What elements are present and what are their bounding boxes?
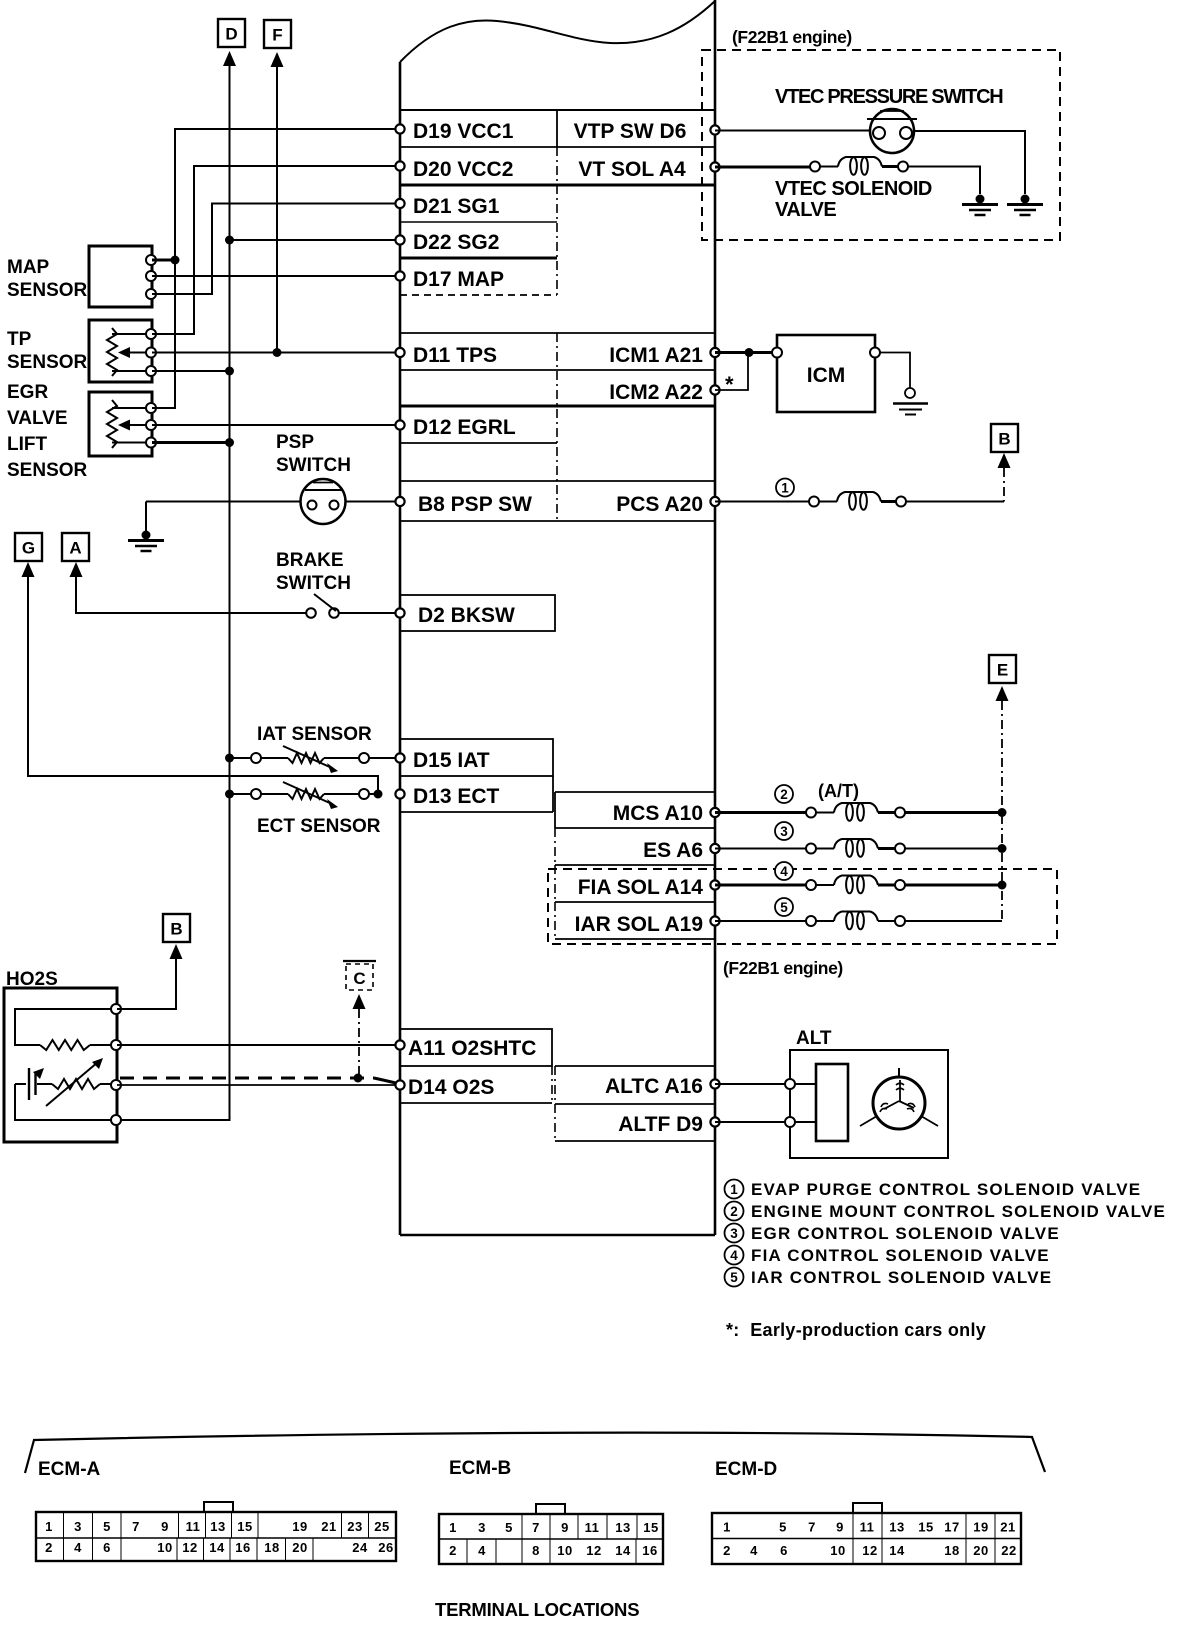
svg-text:23: 23	[347, 1519, 362, 1534]
legend item 2	[725, 1202, 1167, 1222]
connector box C with overbar	[343, 961, 376, 990]
svg-text:2: 2	[780, 787, 788, 802]
svg-text:TERMINAL LOCATIONS: TERMINAL LOCATIONS	[435, 1599, 639, 1620]
svg-text:D19 VCC1: D19 VCC1	[413, 120, 514, 143]
svg-text:EGR: EGR	[7, 382, 48, 403]
svg-text:25: 25	[374, 1519, 389, 1534]
svg-text:22: 22	[1001, 1543, 1016, 1558]
connector box B (right)	[991, 424, 1018, 452]
wire IAR SOL A19 with IAR control solenoid coil	[715, 912, 1002, 930]
wire VT SOL A4	[715, 166, 812, 169]
svg-text:11: 11	[186, 1519, 201, 1534]
svg-text:18: 18	[264, 1540, 279, 1555]
EGR valve lift sensor label	[7, 382, 88, 481]
wire D22 SG2 to sensor-ground bus	[230, 239, 401, 241]
ECM pin box D2 BKSW	[400, 595, 555, 631]
legend item 5	[725, 1268, 1053, 1288]
wire A11 O2SHTC	[117, 1044, 400, 1046]
svg-text:A11 O2SHTC: A11 O2SHTC	[408, 1037, 536, 1060]
svg-text:VALVE: VALVE	[775, 199, 836, 221]
ECM pin box D17 MAP	[400, 268, 557, 295]
svg-text:FIA CONTROL SOLENOID VALVE: FIA CONTROL SOLENOID VALVE	[751, 1246, 1050, 1265]
ECM body outline (torn-top rectangle)	[400, 0, 715, 1235]
svg-text:D14 O2S: D14 O2S	[408, 1076, 494, 1099]
svg-text:14: 14	[615, 1543, 631, 1558]
svg-text:1: 1	[449, 1520, 457, 1535]
junction dot at D13 ECT	[374, 790, 383, 799]
svg-text:1: 1	[781, 481, 789, 496]
MAP sensor pin circles	[146, 255, 156, 265]
svg-text:EGR CONTROL SOLENOID VALVE: EGR CONTROL SOLENOID VALVE	[751, 1224, 1060, 1243]
svg-text:2: 2	[449, 1543, 457, 1558]
wire HO2S pin1 to B	[117, 959, 176, 1009]
svg-text:C: C	[353, 969, 365, 988]
ECM pin box PCS A20	[616, 493, 703, 516]
wire D17 MAP to MAP pin2	[152, 275, 400, 277]
svg-text:12: 12	[182, 1540, 197, 1555]
svg-text:26: 26	[378, 1540, 393, 1555]
svg-text:7: 7	[808, 1520, 816, 1535]
svg-text:D20 VCC2: D20 VCC2	[413, 158, 513, 181]
MAP sensor label	[7, 257, 88, 301]
svg-text:FIA SOL A14: FIA SOL A14	[578, 876, 704, 899]
svg-text:B8 PSP SW: B8 PSP SW	[418, 493, 532, 516]
svg-text:16: 16	[235, 1540, 250, 1555]
svg-text:VTEC PRESSURE SWITCH: VTEC PRESSURE SWITCH	[775, 86, 1003, 108]
svg-text:MCS A10: MCS A10	[613, 802, 703, 825]
ECT sensor (thermistor)	[230, 782, 379, 809]
svg-text:2: 2	[723, 1543, 731, 1558]
svg-text:ICM2 A22: ICM2 A22	[609, 381, 703, 404]
junction dot ICM1	[745, 348, 754, 357]
TP sensor label	[7, 329, 88, 373]
TP sensor pin circles	[146, 329, 156, 339]
svg-text:7: 7	[532, 1520, 540, 1535]
circled 3	[775, 822, 793, 840]
svg-text:VTP SW D6: VTP SW D6	[574, 120, 687, 143]
dashed enclosure FIA/IAR (F22B1)	[548, 869, 1057, 944]
svg-text:*: Early-production cars only: *: Early-production cars only	[726, 1320, 986, 1340]
ECM pin box IAR SOL A19	[555, 902, 715, 939]
legend item 1	[725, 1180, 1142, 1200]
PSP switch symbol	[301, 479, 346, 524]
ECM pin box D11 TPS	[400, 333, 715, 370]
ECM pin box ALTC A16	[555, 1066, 715, 1104]
wire D14 O2S shielded (dashed)	[120, 1077, 374, 1080]
arrow up to G	[22, 562, 35, 577]
svg-text:9: 9	[561, 1520, 569, 1535]
svg-text:12: 12	[586, 1543, 601, 1558]
svg-text:ECT SENSOR: ECT SENSOR	[257, 816, 381, 837]
svg-text:14: 14	[889, 1543, 905, 1558]
svg-text:5: 5	[779, 1520, 787, 1535]
svg-text:4: 4	[780, 864, 788, 879]
VTEC pressure switch symbol	[867, 109, 917, 153]
ECM pin box ICM1 A21	[609, 344, 703, 367]
VTEC solenoid valve label	[775, 178, 932, 221]
junction dot FIA/E	[998, 881, 1007, 890]
arrow up to C	[353, 994, 366, 1009]
wire D20 VCC2 to TP pin1	[152, 166, 400, 334]
svg-text:ALT: ALT	[796, 1028, 832, 1049]
svg-text:ENGINE MOUNT CONTROL SOLENOID: ENGINE MOUNT CONTROL SOLENOID VALVE	[751, 1202, 1166, 1221]
HO2S pin circles	[111, 1004, 121, 1014]
arrow up to B right	[998, 453, 1011, 468]
svg-text:ES A6: ES A6	[643, 839, 703, 862]
arrow up to E	[996, 686, 1009, 701]
MAP sensor box	[89, 246, 152, 307]
circled 4	[775, 862, 793, 880]
alternator symbol	[860, 1068, 938, 1129]
svg-text:D15 IAT: D15 IAT	[413, 749, 490, 772]
ECM pin box D15 IAT	[400, 739, 553, 776]
ECM pin box A11 O2SHTC	[400, 1029, 552, 1066]
G line down to ECT	[28, 590, 378, 794]
svg-text:10: 10	[157, 1540, 172, 1555]
svg-text:SENSOR: SENSOR	[7, 280, 88, 301]
svg-text:EVAP PURGE CONTROL SOLENOID VA: EVAP PURGE CONTROL SOLENOID VALVE	[751, 1180, 1141, 1199]
svg-text:3: 3	[730, 1226, 738, 1241]
internal divider dash-dot line	[556, 147, 558, 295]
sensor ground bus (D line)	[117, 80, 230, 1120]
svg-text:(A/T): (A/T)	[818, 781, 859, 801]
circled 5	[775, 898, 793, 916]
svg-text:14: 14	[209, 1540, 225, 1555]
svg-text:IAR SOL A19: IAR SOL A19	[575, 913, 703, 936]
legend item 4	[725, 1246, 1050, 1266]
svg-text:5: 5	[780, 900, 788, 915]
wire D11 TPS to TP wiper	[152, 352, 400, 354]
svg-text:D2 BKSW: D2 BKSW	[418, 604, 515, 627]
svg-text:B: B	[998, 430, 1010, 449]
circled 2	[775, 785, 793, 803]
internal divider dash-dot line	[556, 333, 558, 521]
svg-text:E: E	[997, 661, 1008, 680]
junction dot ES/E	[998, 844, 1007, 853]
svg-text:3: 3	[74, 1519, 82, 1534]
ECM pin box ICM2 A22	[400, 381, 715, 406]
svg-text:9: 9	[836, 1520, 844, 1535]
wire ALTF D9	[715, 1121, 816, 1123]
svg-text:13: 13	[210, 1519, 225, 1534]
ground (ICM)	[893, 388, 928, 415]
ground at PSP switch	[142, 531, 151, 540]
wire D14 O2S (solid)	[117, 1084, 400, 1086]
svg-text:15: 15	[237, 1519, 252, 1534]
ECM pin box D14 O2S	[400, 1066, 552, 1103]
svg-text:10: 10	[557, 1543, 572, 1558]
wire EGR pin3 to ground bus	[152, 441, 230, 444]
svg-text:ALTF D9: ALTF D9	[618, 1113, 703, 1136]
circled 1	[776, 479, 794, 497]
brake switch symbol	[306, 594, 339, 618]
wire MCS A10 with engine mount solenoid coil	[715, 803, 1002, 821]
HO2S sensing element	[15, 1058, 115, 1120]
wire TP pin3 to ground bus	[152, 370, 230, 372]
EGR sensor pin circles	[146, 403, 156, 413]
ECM pin box FIA SOL A14	[555, 865, 715, 902]
ECM pin box VTP SW D6	[557, 120, 715, 147]
svg-text:6: 6	[780, 1543, 788, 1558]
svg-text:4: 4	[750, 1543, 758, 1558]
ECM terminal circles (left)	[395, 124, 404, 133]
svg-text:PSP: PSP	[276, 432, 314, 453]
wire D12 EGRL to EGR wiper	[152, 424, 400, 426]
svg-text:4: 4	[74, 1540, 82, 1555]
wire FIA SOL A14 with FIA control solenoid coil	[715, 876, 1002, 894]
VTEC solenoid coil	[810, 157, 908, 175]
svg-text:ICM1 A21: ICM1 A21	[609, 344, 703, 367]
wire D21 SG1 to MAP pin3	[152, 204, 400, 295]
svg-text:D13 ECT: D13 ECT	[413, 785, 500, 808]
wire D19 VCC1 to MAP pin1 / EGR pin1	[152, 129, 400, 408]
svg-text:D12 EGRL: D12 EGRL	[413, 416, 516, 439]
svg-text:20: 20	[292, 1540, 307, 1555]
svg-text:TP: TP	[7, 329, 32, 350]
svg-text:ECM-B: ECM-B	[449, 1458, 511, 1479]
svg-text:1: 1	[723, 1520, 731, 1535]
TP sensor box (potentiometer)	[89, 320, 152, 382]
svg-text:SWITCH: SWITCH	[276, 573, 351, 594]
junction dot MCS/E	[998, 808, 1007, 817]
svg-text:5: 5	[730, 1270, 738, 1285]
ECM pin box ALTF D9	[555, 1104, 715, 1141]
svg-text:PCS A20: PCS A20	[616, 493, 703, 516]
ICM box	[777, 335, 875, 412]
svg-text:F: F	[272, 26, 282, 45]
ALT regulator rectangle	[816, 1064, 848, 1141]
HO2S sensor box	[4, 988, 117, 1142]
HO2S heater resistor	[15, 1009, 115, 1050]
ECM pin box D20 VCC2	[400, 158, 557, 185]
ECM terminal circles (right)	[710, 125, 719, 134]
svg-text:3: 3	[780, 824, 788, 839]
svg-text:D22 SG2: D22 SG2	[413, 231, 499, 254]
svg-text:21: 21	[1000, 1520, 1015, 1535]
svg-text:ECM-A: ECM-A	[38, 1459, 101, 1480]
wire VT solenoid to ground	[908, 167, 980, 195]
arrow up to A	[70, 562, 83, 577]
ECM pin box D13 ECT	[400, 776, 553, 812]
wire pressure switch to ground	[914, 131, 1025, 194]
IAT sensor (thermistor)	[230, 746, 401, 773]
svg-text:17: 17	[944, 1520, 959, 1535]
svg-text:(F22B1 engine): (F22B1 engine)	[723, 958, 843, 978]
svg-text:IAR CONTROL SOLENOID VALVE: IAR CONTROL SOLENOID VALVE	[751, 1268, 1052, 1287]
svg-text:6: 6	[103, 1540, 111, 1555]
brake switch label	[276, 550, 351, 594]
ECM pin box D21 SG1	[400, 195, 557, 222]
svg-text:MAP: MAP	[7, 257, 50, 278]
connector ECM-A	[36, 1502, 396, 1561]
svg-text:1: 1	[730, 1182, 738, 1197]
svg-text:VT SOL A4: VT SOL A4	[578, 158, 686, 181]
svg-text:4: 4	[478, 1543, 486, 1558]
svg-text:15: 15	[643, 1520, 658, 1535]
svg-text:2: 2	[730, 1204, 738, 1219]
svg-text:SENSOR: SENSOR	[7, 460, 88, 481]
svg-text:8: 8	[532, 1543, 540, 1558]
svg-text:12: 12	[862, 1543, 877, 1558]
ICM pin circles	[772, 348, 782, 358]
ALT box	[790, 1050, 948, 1158]
svg-text:D: D	[225, 25, 237, 44]
svg-text:*: *	[725, 372, 734, 397]
wire A to brake switch	[76, 590, 306, 613]
connector ECM-B	[439, 1504, 663, 1564]
connector box A	[62, 533, 89, 561]
svg-text:11: 11	[585, 1520, 600, 1535]
svg-text:15: 15	[918, 1520, 933, 1535]
svg-text:4: 4	[730, 1248, 738, 1263]
svg-text:5: 5	[505, 1520, 513, 1535]
arrow up to D	[223, 51, 236, 66]
junction node MAP pin1	[152, 259, 175, 262]
arrow up to F	[271, 52, 284, 67]
terminal locations banner outline	[25, 1433, 1045, 1473]
svg-text:5: 5	[103, 1519, 111, 1534]
svg-text:ALTC A16: ALTC A16	[605, 1075, 703, 1098]
svg-text:A: A	[69, 539, 81, 558]
wire ALTC A16	[715, 1083, 816, 1085]
ground (VT solenoid)	[976, 195, 985, 204]
svg-text:G: G	[22, 539, 35, 558]
svg-text:2: 2	[45, 1540, 53, 1555]
connector box G	[15, 533, 42, 561]
legend item 3	[725, 1224, 1060, 1244]
svg-text:D21 SG1: D21 SG1	[413, 195, 500, 218]
junction dot C line	[354, 1074, 363, 1083]
wire PCS A20 with EVAP purge solenoid coil	[715, 492, 1004, 510]
junction F line to TPS wire	[273, 348, 282, 357]
svg-text:ICM: ICM	[807, 364, 846, 387]
svg-text:VALVE: VALVE	[7, 408, 68, 429]
svg-text:IAT SENSOR: IAT SENSOR	[257, 724, 372, 745]
svg-text:18: 18	[944, 1543, 959, 1558]
svg-text:19: 19	[292, 1519, 307, 1534]
svg-text:(F22B1 engine): (F22B1 engine)	[732, 27, 852, 47]
wire ICM1 A21	[715, 351, 777, 354]
svg-text:21: 21	[321, 1519, 336, 1534]
connector box F	[264, 20, 291, 48]
svg-text:3: 3	[478, 1520, 486, 1535]
svg-text:D11 TPS: D11 TPS	[413, 344, 497, 367]
connector box E	[989, 655, 1016, 683]
svg-text:LIFT: LIFT	[7, 434, 47, 455]
svg-text:BRAKE: BRAKE	[276, 550, 344, 571]
ALT pin circles	[785, 1079, 795, 1089]
VTEC dashed enclosure	[702, 50, 1060, 240]
wire B8 PSP SW	[346, 501, 400, 503]
ECM pin box ES A6	[555, 828, 715, 865]
svg-text:11: 11	[860, 1520, 875, 1535]
connector box D	[218, 19, 245, 47]
svg-text:9: 9	[161, 1519, 169, 1534]
ECM pin box VT SOL A4	[557, 158, 715, 185]
svg-text:7: 7	[132, 1519, 140, 1534]
ECM pin box D22 SG2	[400, 231, 557, 258]
wire brake switch to D2 BKSW	[339, 612, 400, 614]
svg-text:20: 20	[973, 1543, 988, 1558]
arrow up to B	[170, 944, 183, 959]
EGR valve lift sensor box (potentiometer)	[89, 392, 152, 456]
ECM pin box D12 EGRL	[400, 416, 557, 443]
svg-text:D17 MAP: D17 MAP	[413, 268, 504, 291]
svg-text:16: 16	[642, 1543, 657, 1558]
svg-text:1: 1	[45, 1519, 53, 1534]
ground (pressure switch)	[1021, 195, 1030, 204]
wire ES A6 with EGR control solenoid coil	[715, 839, 1002, 857]
PSP switch label	[276, 432, 351, 476]
wire VTP SW D6	[715, 130, 870, 132]
svg-text:19: 19	[973, 1520, 988, 1535]
connector ECM-D	[712, 1503, 1021, 1564]
svg-text:24: 24	[352, 1540, 368, 1555]
svg-text:13: 13	[889, 1520, 904, 1535]
ECM pin box MCS A10	[555, 792, 715, 828]
svg-text:VTEC SOLENOID: VTEC SOLENOID	[775, 178, 932, 200]
svg-text:SWITCH: SWITCH	[276, 455, 351, 476]
wire ICM2 A22 (early production)	[715, 353, 748, 391]
ECM pin box B8 PSP SW	[400, 481, 715, 521]
junction dots on D line	[225, 236, 234, 245]
svg-text:13: 13	[615, 1520, 630, 1535]
svg-text:B: B	[170, 920, 182, 939]
ECM pin box D19 VCC1	[400, 110, 715, 147]
svg-text:ECM-D: ECM-D	[715, 1459, 777, 1480]
F line vertical	[276, 80, 278, 353]
svg-text:10: 10	[830, 1543, 845, 1558]
connector box B (to HO2S)	[163, 914, 190, 942]
svg-text:SENSOR: SENSOR	[7, 352, 88, 373]
wire ICM to ground	[880, 353, 910, 389]
